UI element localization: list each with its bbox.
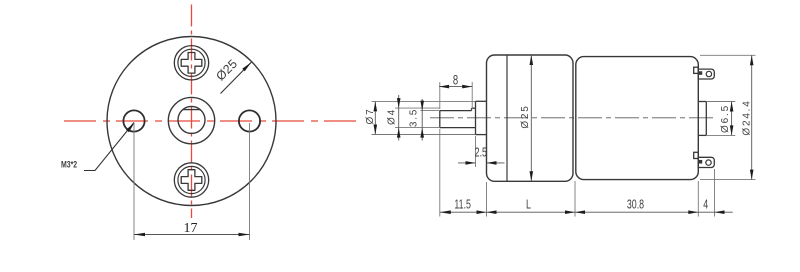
svg-text:M3*2: M3*2 (61, 158, 77, 169)
dimension Ø4 (387, 95, 441, 141)
centerline vertical red (191, 5, 193, 219)
dimension 11.5 / L / 30.8 / 4 line (440, 211, 733, 213)
svg-text:30.8: 30.8 (627, 198, 644, 212)
screw S1 (top) (174, 46, 208, 80)
dimension 2.5 (458, 136, 505, 167)
dimension Ø6.5 (706, 102, 735, 136)
svg-text:Ø6.5: Ø6.5 (720, 104, 731, 133)
screw S2 (bottom) (174, 163, 208, 197)
bottom extension lines (440, 129, 715, 217)
arrow at 439.8 (440, 210, 451, 214)
dimension 17 (134, 221, 250, 236)
terminal tab top (694, 67, 715, 79)
gearbox face plate line (506, 55, 508, 180)
centerline horizontal red (64, 120, 357, 122)
terminal tab bottom (694, 152, 715, 167)
center boss circle (168, 97, 214, 143)
motor body outline (576, 57, 699, 180)
mounting hole left (123, 110, 144, 131)
svg-text:L: L (526, 198, 531, 212)
arrows at 575 (565, 210, 575, 214)
svg-text:2.5: 2.5 (475, 146, 487, 160)
svg-text:4: 4 (703, 198, 708, 212)
svg-text:Ø4: Ø4 (387, 108, 398, 125)
svg-text:17: 17 (184, 221, 198, 236)
dimension 3.5 (408, 99, 440, 141)
dimension Ø25 side (520, 55, 533, 181)
motor face outer circle (107, 37, 276, 206)
arrows at 486.5 (477, 210, 487, 214)
svg-text:Ø24.4: Ø24.4 (741, 99, 752, 135)
extension lines for 17 (134, 123, 250, 240)
rear bearing boss Ø6.5 (698, 102, 706, 136)
output shaft D-profile (178, 106, 205, 133)
shaft (D-cut) (440, 108, 476, 127)
arrow at 714.5 (715, 210, 725, 214)
svg-text:8: 8 (453, 72, 459, 88)
svg-text:11.5: 11.5 (454, 198, 471, 212)
centerline axis dash-dot (430, 117, 717, 119)
leader Ø25 front (221, 62, 252, 93)
dimension Ø24.4 (700, 55, 756, 179)
gearbox outline (487, 55, 574, 181)
mounting hole right (239, 110, 260, 131)
dimension Ø7 (365, 101, 475, 134)
leader M3*2 (84, 123, 135, 171)
front bushing Ø7 (476, 101, 487, 134)
svg-text:Ø25: Ø25 (520, 104, 531, 128)
svg-text:3.5: 3.5 (408, 108, 419, 127)
dimension 8 (439, 72, 472, 109)
svg-text:Ø7: Ø7 (365, 108, 376, 125)
arrow at 698.3 (688, 210, 698, 214)
